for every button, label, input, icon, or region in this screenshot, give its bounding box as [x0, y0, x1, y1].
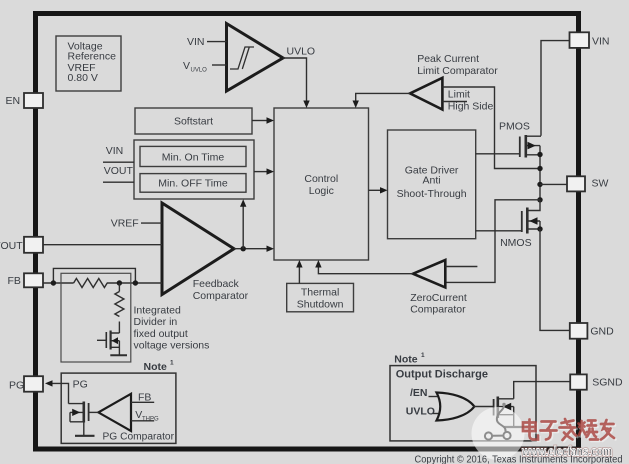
- wire VIN input to UVLO comparator: [207, 41, 227, 43]
- ground discharge MOSFET: [504, 426, 524, 428]
- wire gate driver to PMOS gate: [476, 153, 520, 155]
- wire PG comparator output to PG MOSFET gate: [89, 411, 99, 413]
- node junction SW tap: [537, 182, 542, 187]
- svg-text:Output Discharge: Output Discharge: [396, 368, 488, 380]
- op-amp PG comparator: [98, 394, 174, 443]
- node junction peak sense tap: [537, 166, 542, 171]
- pin SGND: [570, 374, 623, 389]
- pin VIN: [570, 32, 610, 48]
- min off time block: [140, 174, 246, 193]
- svg-text:Thermal: Thermal: [301, 287, 340, 299]
- svg-text:UVLO: UVLO: [191, 68, 208, 74]
- node VIN label at UVLO comparator: [187, 36, 205, 48]
- svg-text:Shoot-Through: Shoot-Through: [397, 188, 467, 200]
- svg-text:Min. On Time: Min. On Time: [162, 151, 225, 163]
- node junction PMOS drain: [537, 152, 542, 157]
- transistor PMOS: [520, 135, 541, 158]
- node junction feedback output: [241, 246, 246, 251]
- svg-text:VOUT: VOUT: [104, 165, 134, 177]
- svg-text:PMOS: PMOS: [499, 120, 530, 132]
- svg-text:FB: FB: [8, 275, 21, 287]
- svg-text:Note: Note: [394, 354, 417, 366]
- op-amp zero current comparator: [410, 260, 467, 316]
- pin EN: [6, 93, 44, 108]
- wire VTHPG input to PG comparator: [131, 420, 154, 422]
- node Limit label: [448, 89, 470, 101]
- resistor R1 horizontal in divider: [74, 279, 108, 288]
- wire VIN to min block: [103, 161, 134, 163]
- svg-text:SW: SW: [592, 178, 609, 190]
- node junction divider top: [117, 280, 122, 285]
- op-amp feedback comparator: [162, 203, 249, 302]
- svg-text:Comparator: Comparator: [193, 290, 249, 302]
- svg-text:Limit Comparator: Limit Comparator: [417, 65, 498, 77]
- svg-text:Min. OFF Time: Min. OFF Time: [158, 178, 228, 190]
- transistor PG MOSFET: [69, 402, 89, 436]
- thermal shutdown block: [287, 283, 354, 311]
- ground divider MOSFET: [110, 354, 127, 356]
- wire min block output to control logic: [254, 168, 274, 174]
- svg-text:PG: PG: [9, 380, 24, 392]
- svg-text:PG Comparator: PG Comparator: [103, 431, 175, 442]
- node VIN label into min block: [106, 145, 124, 157]
- pin GND: [570, 323, 614, 339]
- wire VIN pin to PMOS source: [541, 41, 570, 136]
- svg-text:Anti: Anti: [423, 175, 441, 187]
- svg-text:PG: PG: [73, 378, 88, 390]
- svg-text:Note: Note: [144, 361, 167, 373]
- wire zero current comparator reference input: [445, 266, 477, 268]
- node High Side label: [448, 101, 494, 113]
- wire OR gate output to discharge MOSFET gate: [474, 406, 494, 408]
- svg-text:VIN: VIN: [106, 145, 124, 157]
- transistor NMOS: [522, 200, 540, 234]
- wire UVLO output to control logic: [283, 58, 310, 108]
- min on time block: [140, 146, 246, 166]
- ground PG MOSFET: [75, 435, 95, 437]
- node Output Discharge label: [396, 368, 488, 380]
- node VOUT label into min block: [104, 165, 134, 177]
- transistor discharge MOSFET: [494, 397, 514, 427]
- node /EN label: [410, 387, 428, 399]
- node UVLO label: [406, 406, 435, 418]
- svg-text:FB: FB: [138, 391, 151, 403]
- svg-text:GND: GND: [590, 326, 614, 338]
- svg-text:Logic: Logic: [309, 185, 334, 197]
- svg-text:Shutdown: Shutdown: [297, 299, 344, 311]
- wire feedback output up to min block: [240, 199, 246, 249]
- svg-text:Copyright © 2016, Texas Instru: Copyright © 2016, Texas Instruments Inco…: [415, 454, 623, 464]
- wire resistor R2 to divider MOSFET drain: [118, 322, 120, 334]
- svg-text:UVLO: UVLO: [287, 45, 316, 57]
- resistor R2 vertical in divider: [115, 292, 124, 317]
- pin FB: [8, 273, 44, 287]
- transistor PMOS label: [499, 120, 530, 132]
- svg-text:1: 1: [421, 352, 425, 359]
- wire zero current sense from NMOS drain node: [446, 200, 540, 283]
- node FB input label: [138, 391, 151, 403]
- watermark share circle: [472, 403, 525, 460]
- node Note label for PG comparator: [144, 360, 175, 374]
- wire SW node to SW pin: [540, 183, 567, 185]
- wire FB bypass path: [53, 268, 135, 283]
- wire discharge MOSFET drain to SGND pin: [514, 382, 571, 399]
- integrated divider annotation: [134, 305, 210, 352]
- svg-text:Feedback: Feedback: [193, 278, 240, 290]
- svg-text:Reference: Reference: [68, 51, 117, 63]
- voltage reference block: [56, 36, 121, 91]
- wire FB input to PG comparator: [131, 401, 154, 403]
- watermark red logo text: [524, 420, 615, 441]
- svg-text:VIN: VIN: [187, 36, 205, 48]
- svg-text:SGND: SGND: [592, 377, 623, 389]
- wire PG comparator to PG pin: [45, 380, 69, 403]
- svg-text:V: V: [183, 60, 190, 72]
- wire peak comparator reference input: [442, 101, 467, 103]
- svg-text:1: 1: [170, 360, 174, 367]
- wire VUVLO input to UVLO comparator: [212, 64, 227, 66]
- pin VOUT: [0, 237, 43, 253]
- svg-text:fixed output: fixed output: [134, 328, 188, 340]
- control logic block: [274, 108, 369, 260]
- svg-text:UVLO: UVLO: [406, 406, 435, 418]
- svg-text:ZeroCurrent: ZeroCurrent: [410, 292, 467, 304]
- min on/off container block: [134, 140, 254, 199]
- svg-text:Peak Current: Peak Current: [417, 53, 479, 65]
- integrated divider box: [61, 273, 131, 362]
- transistor NMOS label: [500, 237, 531, 249]
- wire softstart output to control logic: [252, 117, 274, 123]
- node junction NMOS source: [537, 226, 542, 231]
- wire control logic output to gate driver: [369, 187, 388, 193]
- svg-text:VREF: VREF: [111, 218, 139, 230]
- wire gate driver to NMOS gate: [476, 230, 521, 232]
- wire feedback comparator output to control logic: [234, 246, 274, 252]
- svg-text:Softstart: Softstart: [174, 116, 213, 128]
- wire switch node vertical PMOS drain to NMOS drain: [539, 155, 541, 200]
- wire UVLO input to OR gate: [433, 413, 440, 415]
- wire /EN input to OR gate: [429, 396, 441, 398]
- PG comparator box: [61, 373, 176, 443]
- node VREF label: [111, 218, 139, 230]
- op-amp peak current limit comparator: [410, 53, 498, 110]
- gate driver block: [388, 130, 476, 239]
- node Note label for output discharge: [394, 352, 425, 366]
- wire divider node to resistor R2: [118, 283, 120, 292]
- op-amp UVLO comparator: [227, 24, 284, 92]
- node VTHPG input label: [135, 409, 159, 422]
- node VUVLO label: [183, 60, 207, 74]
- output discharge box: [390, 366, 536, 441]
- pin PG: [9, 376, 43, 392]
- svg-text:Limit: Limit: [448, 89, 470, 101]
- svg-text:High Side: High Side: [448, 101, 494, 113]
- svg-text:Comparator: Comparator: [410, 304, 466, 316]
- svg-text:voltage versions: voltage versions: [134, 340, 210, 352]
- wire peak comparator output to control logic: [353, 93, 411, 108]
- transistor divider MOSFET: [97, 331, 119, 355]
- svg-text:EN: EN: [6, 95, 21, 107]
- node junction FB pin: [51, 280, 56, 285]
- svg-text:Divider in: Divider in: [134, 316, 178, 328]
- wire VOUT to min block: [103, 181, 134, 183]
- node UVLO output label: [287, 45, 316, 57]
- svg-text:NMOS: NMOS: [500, 237, 531, 249]
- svg-text:/EN: /EN: [410, 387, 428, 399]
- svg-text:VIN: VIN: [592, 35, 610, 47]
- svg-text:0.80 V: 0.80 V: [68, 72, 98, 84]
- svg-text:Integrated: Integrated: [134, 305, 181, 317]
- svg-text:VOUT: VOUT: [0, 240, 23, 252]
- pin SW: [567, 176, 609, 191]
- wire NMOS source to GND pin: [540, 229, 570, 330]
- node junction bypass: [133, 280, 138, 285]
- wire VREF to feedback comparator: [141, 222, 162, 224]
- OR gate U3: [437, 393, 475, 421]
- node PG label inside box: [73, 378, 88, 390]
- wire thermal shutdown to control logic: [296, 260, 302, 283]
- wire VOUT pin to feedback comparator: [43, 244, 162, 246]
- watermark www.elecfans.com: [521, 445, 612, 459]
- softstart block: [135, 108, 252, 134]
- wire FB pin to divider and comparator: [43, 282, 162, 284]
- wire zero current comparator output to control logic: [315, 260, 413, 274]
- wire peak comparator sense input from PMOS drain node: [442, 87, 540, 169]
- svg-text:Control: Control: [304, 173, 338, 185]
- node junction NMOS drain: [537, 197, 542, 202]
